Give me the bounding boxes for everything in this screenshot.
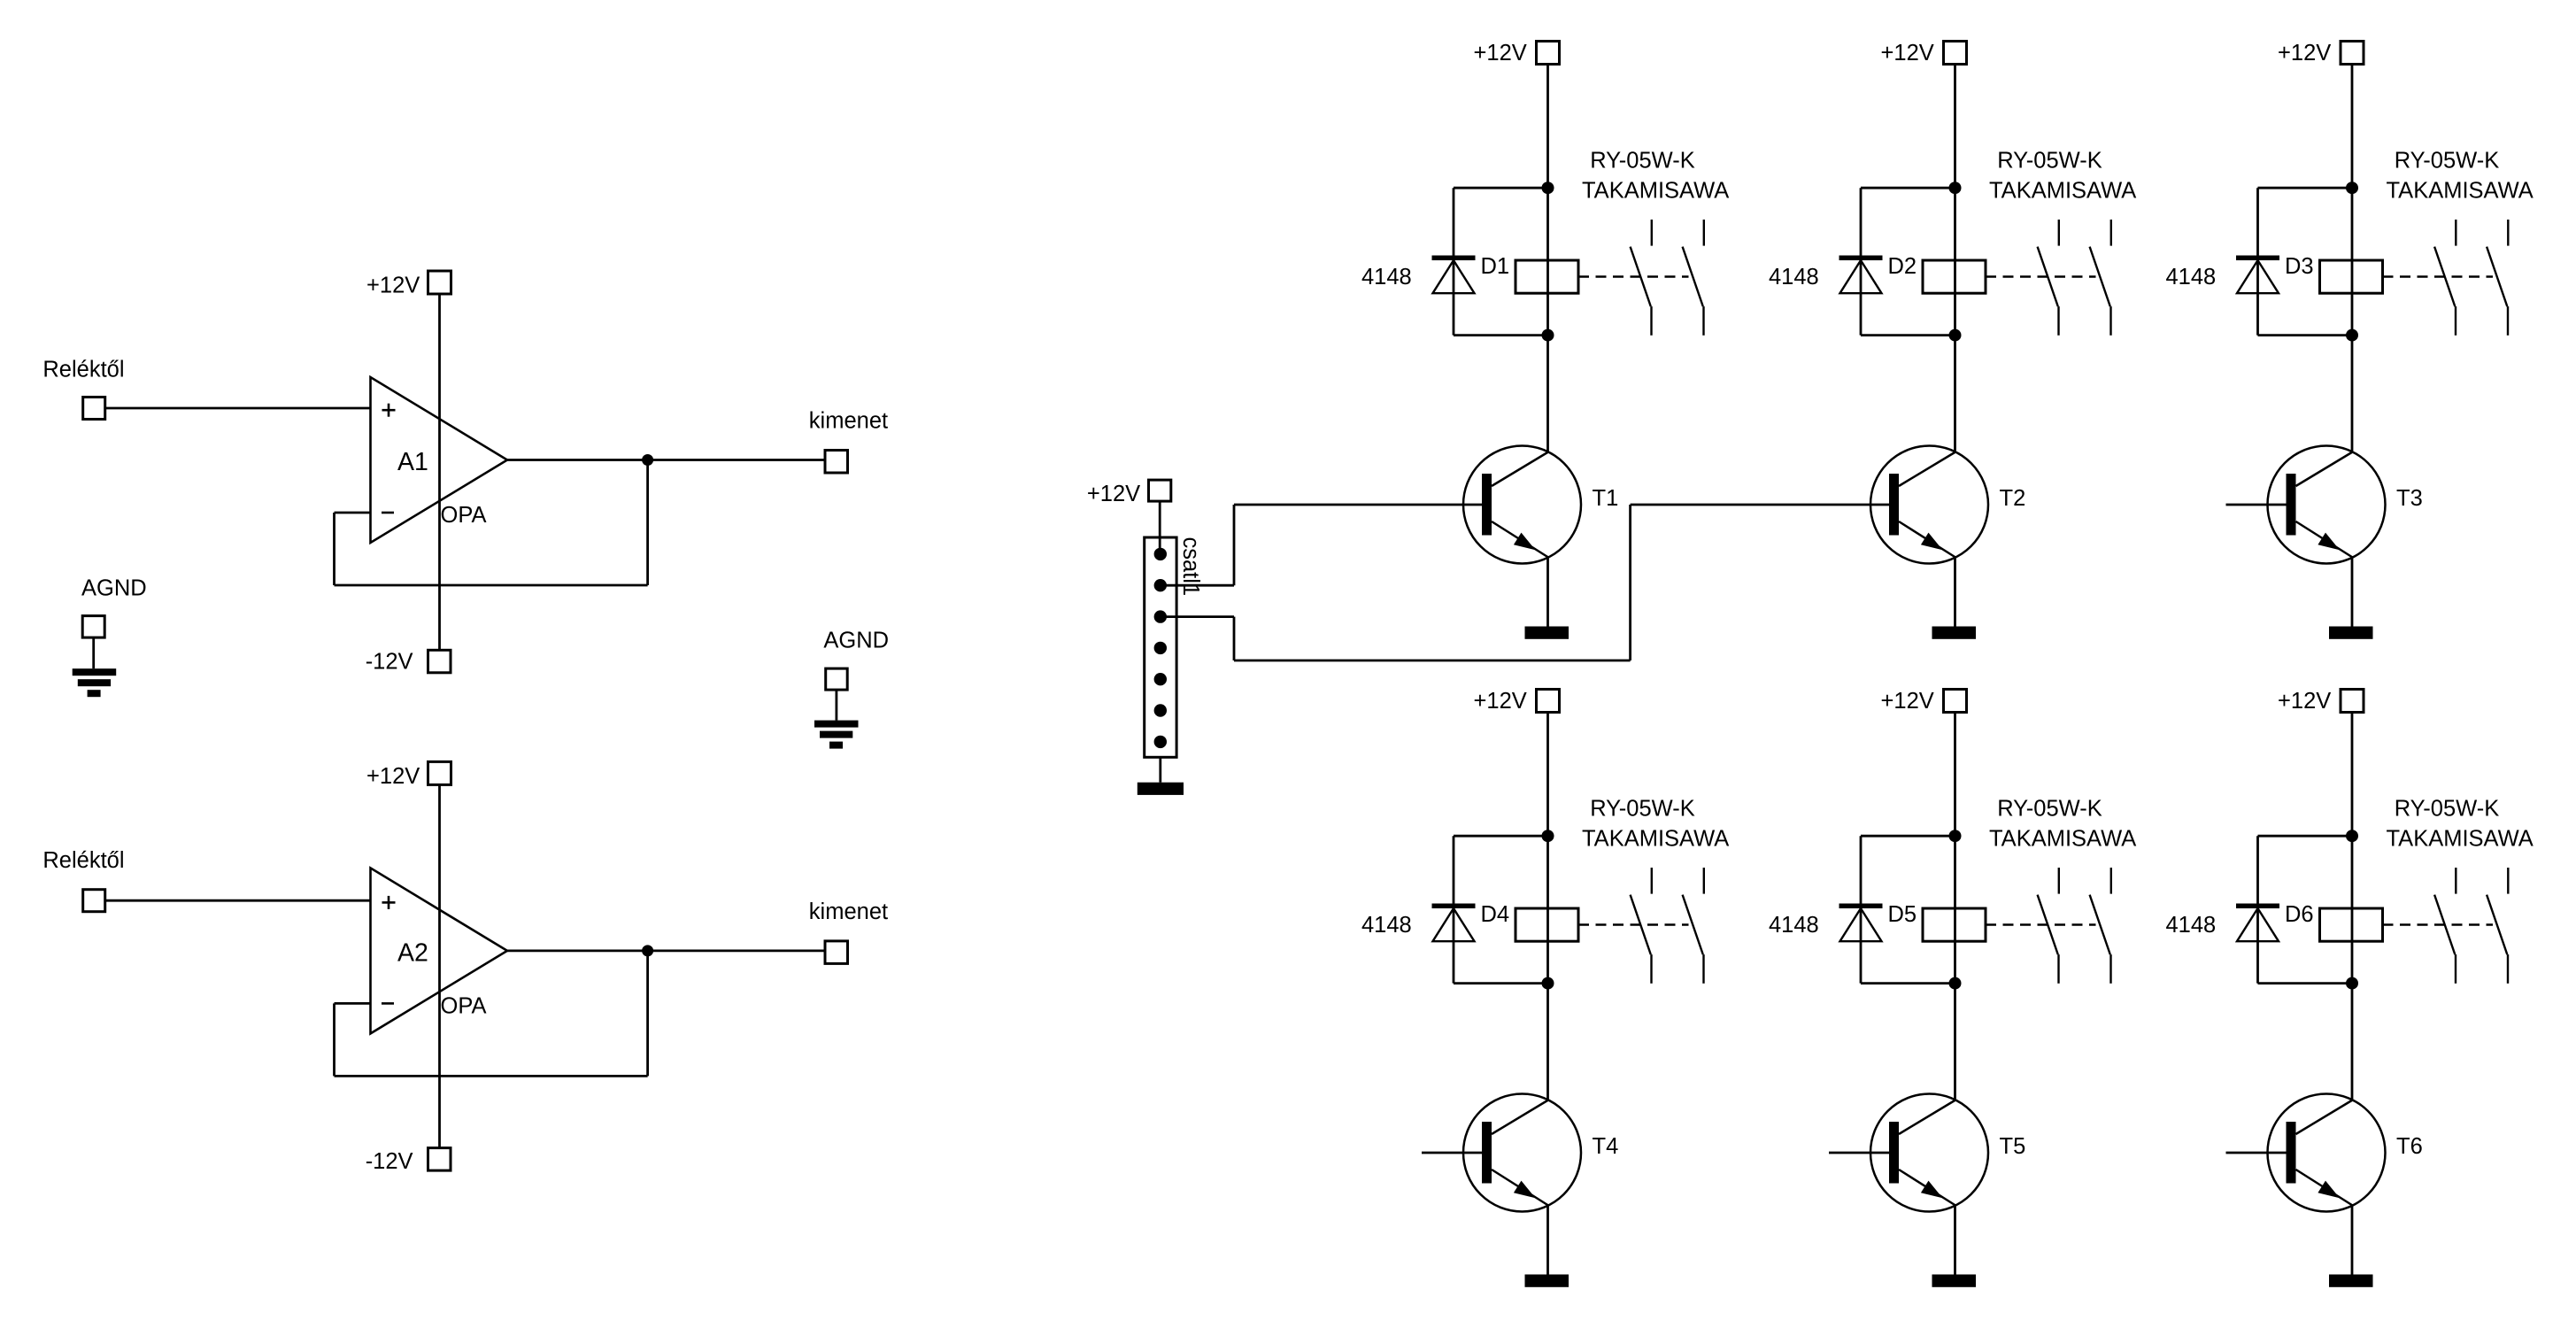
svg-text:D1: D1	[1481, 254, 1510, 279]
transistor T1	[1463, 446, 1581, 564]
wire T2 emitter to ground	[1954, 558, 1956, 627]
svg-text:T2: T2	[2000, 486, 2026, 511]
relay coil RY-05W-K T1 cell	[1516, 260, 1578, 293]
relay coil RY-05W-K T4 cell	[1516, 908, 1578, 941]
svg-text:RY-05W-K: RY-05W-K	[1997, 797, 2102, 822]
svg-text:Reléktől: Reléktől	[42, 358, 124, 382]
connector pin 1	[1154, 548, 1167, 560]
svg-text:-12V: -12V	[366, 1149, 413, 1174]
svg-text:D2: D2	[1888, 254, 1917, 279]
diode D5 4148	[1861, 835, 1955, 838]
relay contacts T6 cell	[2383, 923, 2494, 925]
node output junction A2	[642, 945, 653, 956]
svg-text:A1: A1	[397, 448, 428, 476]
node D6 anode junction	[2346, 977, 2358, 990]
svg-text:OPA: OPA	[441, 993, 487, 1018]
node D6 cathode junction	[2346, 830, 2358, 842]
svg-text:D6: D6	[2285, 902, 2314, 927]
wire +12V to -12V through A1	[438, 294, 441, 650]
diode D3 4148	[2258, 187, 2353, 189]
wire +12V to T4 collector	[1546, 713, 1549, 1100]
connector pin 4	[1154, 642, 1167, 654]
wire connector pin 2 to T1 base	[1161, 584, 1234, 587]
relay contacts T5 cell	[1986, 923, 2096, 925]
transistor T2	[1870, 446, 1988, 564]
wire A1 output to kimenet	[507, 459, 825, 461]
ground T2	[1932, 627, 1977, 639]
node D1 anode junction	[1542, 329, 1554, 342]
svg-text:D3: D3	[2285, 254, 2314, 279]
node D1 cathode junction	[1542, 181, 1554, 194]
ground connector	[1138, 783, 1184, 795]
transistor T6	[2268, 1094, 2386, 1212]
svg-text:kimenet: kimenet	[809, 899, 888, 924]
svg-text:csatl1: csatl1	[1178, 537, 1203, 597]
wire +12V to T2 collector	[1954, 65, 1956, 452]
ground T6	[2329, 1275, 2373, 1287]
svg-text:4148: 4148	[2166, 913, 2217, 938]
svg-text:AGND: AGND	[81, 576, 147, 601]
svg-text:RY-05W-K: RY-05W-K	[2395, 797, 2500, 822]
wire T4 emitter to ground	[1546, 1206, 1549, 1275]
wire +12V to T1 collector	[1546, 65, 1549, 452]
wire T5 base stub	[1829, 1152, 1889, 1154]
wire AGND 2	[836, 690, 838, 721]
wire T3 base stub	[2226, 504, 2287, 506]
wire T1 emitter to ground	[1546, 558, 1549, 627]
connector pin 3	[1154, 610, 1167, 622]
wire input to A1 +	[105, 407, 371, 410]
svg-text:TAKAMISAWA: TAKAMISAWA	[1582, 827, 1729, 852]
-12V supply A1	[428, 650, 451, 673]
relay coil RY-05W-K T2 cell	[1923, 260, 1986, 293]
svg-text:D4: D4	[1481, 902, 1510, 927]
node D3 anode junction	[2346, 329, 2358, 342]
node D4 cathode junction	[1542, 830, 1554, 842]
wire T3 emitter to ground	[2351, 558, 2354, 627]
connector csatl1	[1145, 537, 1176, 757]
ground T5	[1932, 1275, 1977, 1287]
svg-text:T6: T6	[2396, 1134, 2423, 1159]
wire +12V to T3 collector	[2351, 65, 2354, 452]
node D4 anode junction	[1542, 977, 1554, 990]
wire T5 emitter to ground	[1954, 1206, 1956, 1275]
svg-text:4148: 4148	[1361, 265, 1412, 290]
wire AGND 1	[92, 637, 95, 668]
wire T6 emitter to ground	[2351, 1206, 2354, 1275]
node D3 cathode junction	[2346, 181, 2358, 194]
svg-text:+12V: +12V	[1474, 41, 1527, 66]
relay coil RY-05W-K T3 cell	[2320, 260, 2383, 293]
wire connector pin 3 to T2 base	[1161, 615, 1234, 618]
svg-text:AGND: AGND	[823, 628, 889, 652]
svg-text:RY-05W-K: RY-05W-K	[1590, 797, 1695, 822]
svg-text:TAKAMISAWA: TAKAMISAWA	[2387, 179, 2534, 204]
ground T3	[2329, 627, 2373, 639]
relay contacts T1 cell	[1578, 275, 1689, 277]
svg-text:+12V: +12V	[2278, 41, 2331, 66]
svg-text:+12V: +12V	[1881, 41, 1934, 66]
svg-text:4148: 4148	[2166, 265, 2217, 290]
svg-text:A2: A2	[397, 938, 428, 967]
wire +12V to connector pin 1	[1159, 501, 1161, 554]
ground AGND 2	[814, 721, 859, 728]
ground T1	[1525, 627, 1570, 639]
relay contacts T4 cell	[1578, 923, 1689, 925]
wire +12V to -12V through A2	[438, 784, 441, 1147]
wire input to A2 +	[105, 899, 371, 902]
svg-text:D5: D5	[1888, 902, 1917, 927]
ground T4	[1525, 1275, 1570, 1287]
op-amp A1	[371, 377, 508, 543]
svg-text:T5: T5	[2000, 1134, 2026, 1159]
diode D2 4148	[1861, 187, 1955, 189]
wire T6 base stub	[2226, 1152, 2287, 1154]
diode D6 4148	[2258, 835, 2353, 838]
svg-text:+12V: +12V	[366, 274, 420, 298]
svg-text:+12V: +12V	[1087, 482, 1140, 506]
svg-text:Reléktől: Reléktől	[42, 848, 124, 873]
node D5 cathode junction	[1949, 830, 1962, 842]
wire +12V to T5 collector	[1954, 713, 1956, 1100]
node D2 anode junction	[1949, 329, 1962, 342]
svg-text:RY-05W-K: RY-05W-K	[2395, 149, 2500, 174]
node output junction A1	[642, 454, 653, 466]
svg-text:+12V: +12V	[366, 764, 420, 789]
svg-text:TAKAMISAWA: TAKAMISAWA	[2387, 827, 2534, 852]
svg-text:4148: 4148	[1769, 913, 1819, 938]
svg-text:T3: T3	[2396, 486, 2423, 511]
svg-text:T4: T4	[1593, 1134, 1619, 1159]
svg-text:+12V: +12V	[1474, 689, 1527, 714]
-12V supply A2	[428, 1148, 451, 1171]
relay coil RY-05W-K T5 cell	[1923, 908, 1986, 941]
svg-text:4148: 4148	[1769, 265, 1819, 290]
diode D1 4148	[1454, 187, 1548, 189]
diode D4 4148	[1454, 835, 1548, 838]
svg-text:RY-05W-K: RY-05W-K	[1997, 149, 2102, 174]
svg-text:RY-05W-K: RY-05W-K	[1590, 149, 1695, 174]
svg-text:+12V: +12V	[1881, 689, 1934, 714]
wire A2 output to kimenet	[507, 950, 825, 953]
svg-text:OPA: OPA	[441, 503, 487, 528]
connector pin 5	[1154, 673, 1167, 685]
ground AGND 1	[73, 668, 117, 676]
svg-text:4148: 4148	[1361, 913, 1412, 938]
transistor T4	[1463, 1094, 1581, 1212]
relay contacts T2 cell	[1986, 275, 2096, 277]
relay coil RY-05W-K T6 cell	[2320, 908, 2383, 941]
svg-text:TAKAMISAWA: TAKAMISAWA	[1989, 179, 2136, 204]
svg-text:TAKAMISAWA: TAKAMISAWA	[1989, 827, 2136, 852]
wire T4 base stub	[1422, 1152, 1482, 1154]
connector pin 2	[1154, 579, 1167, 591]
transistor T3	[2268, 446, 2386, 564]
svg-text:+12V: +12V	[2278, 689, 2331, 714]
node D2 cathode junction	[1949, 181, 1962, 194]
svg-text:kimenet: kimenet	[809, 409, 888, 434]
feedback wire A1 output to inverting input	[335, 512, 371, 514]
relay contacts T3 cell	[2383, 275, 2494, 277]
op-amp A2	[371, 868, 508, 1033]
wire connector pin 7 to ground	[1159, 757, 1161, 782]
svg-text:T1: T1	[1593, 486, 1619, 511]
wire +12V to T6 collector	[2351, 713, 2354, 1100]
svg-text:-12V: -12V	[366, 650, 413, 675]
transistor T5	[1870, 1094, 1988, 1212]
connector pin 6	[1154, 704, 1167, 716]
feedback wire A2 output to inverting input	[335, 1002, 371, 1005]
connector pin 7	[1154, 736, 1167, 748]
node D5 anode junction	[1949, 977, 1962, 990]
svg-text:TAKAMISAWA: TAKAMISAWA	[1582, 179, 1729, 204]
